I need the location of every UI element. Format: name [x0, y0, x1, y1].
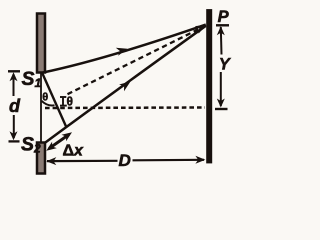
screen bar — [207, 10, 212, 164]
wire dashed horizontal axis — [45, 106, 205, 109]
svg-text:d: d — [9, 96, 21, 116]
angle theta2 tick mark — [60, 97, 67, 106]
svg-text:D: D — [119, 151, 131, 170]
path difference double arrow — [49, 135, 69, 149]
svg-text:P: P — [218, 8, 230, 26]
wire ray S1 to P — [43, 25, 206, 73]
svg-text:Δx: Δx — [63, 143, 85, 160]
slit barrier upper bar — [37, 14, 45, 73]
svg-text:θ: θ — [42, 92, 48, 104]
dimension Y vertical line — [215, 25, 229, 109]
arrowhead on S1 ray — [116, 48, 128, 56]
svg-text:θ: θ — [67, 94, 74, 108]
arrowhead on S2 ray — [119, 82, 130, 92]
wire barrier line S1-S2 — [40, 72, 42, 142]
wire ray S2 to P — [44, 26, 206, 144]
dimension d vertical line — [8, 71, 20, 141]
dimension D horizontal line — [47, 160, 204, 161]
wire dashed central ray O to P — [68, 28, 202, 94]
wire perpendicular from S1 to S2 ray — [42, 73, 67, 128]
slit barrier lower bar — [37, 143, 45, 174]
arrowhead at P convergence — [195, 25, 207, 34]
angle theta1 arc at S1 — [42, 101, 55, 106]
